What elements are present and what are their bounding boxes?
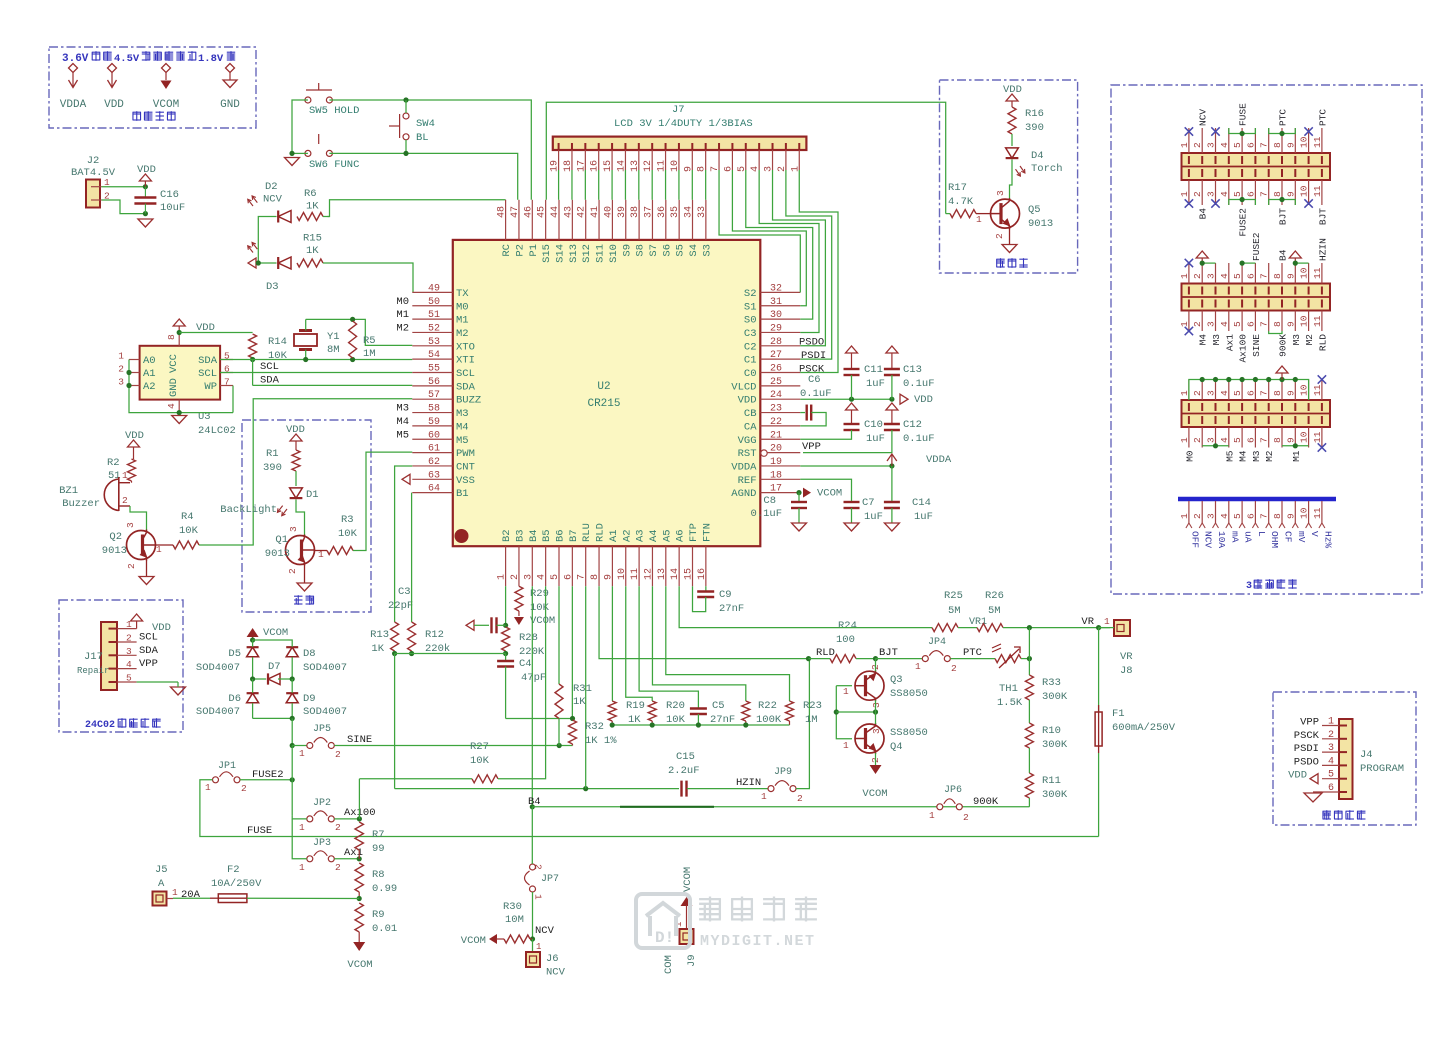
svg-text:D2: D2 xyxy=(265,181,278,193)
svg-text:8: 8 xyxy=(166,334,177,340)
svg-text:RC: RC xyxy=(501,244,513,257)
svg-text:10: 10 xyxy=(1299,136,1310,148)
svg-text:7: 7 xyxy=(1259,437,1270,443)
svg-text:BJT: BJT xyxy=(879,647,898,659)
svg-text:8: 8 xyxy=(590,574,601,580)
svg-text:M3: M3 xyxy=(396,403,409,415)
svg-text:11: 11 xyxy=(1312,315,1323,327)
svg-text:C3: C3 xyxy=(744,328,757,340)
svg-text:4: 4 xyxy=(126,659,132,670)
svg-text:8: 8 xyxy=(1272,321,1283,327)
svg-text:11: 11 xyxy=(1312,267,1323,279)
svg-text:PWM: PWM xyxy=(456,448,475,460)
svg-text:B7: B7 xyxy=(568,529,580,542)
svg-text:6: 6 xyxy=(1245,191,1256,197)
svg-text:J7: J7 xyxy=(672,104,685,116)
svg-text:3: 3 xyxy=(288,526,299,532)
svg-text:VCOM: VCOM xyxy=(817,488,842,500)
svg-text:BZ1: BZ1 xyxy=(59,485,78,497)
svg-text:NCV: NCV xyxy=(263,194,283,206)
svg-text:NCV: NCV xyxy=(1203,531,1214,548)
svg-text:15: 15 xyxy=(684,568,695,580)
svg-text:3: 3 xyxy=(1206,321,1217,327)
svg-text:37: 37 xyxy=(643,206,654,218)
svg-text:61: 61 xyxy=(428,444,440,455)
svg-text:SS8050: SS8050 xyxy=(890,688,928,700)
svg-text:100: 100 xyxy=(836,634,855,646)
svg-text:4: 4 xyxy=(1328,756,1334,767)
svg-text:1K 1%: 1K 1% xyxy=(585,735,617,747)
svg-text:24C02: 24C02 xyxy=(85,720,115,731)
svg-text:M5: M5 xyxy=(456,435,469,447)
svg-text:J9: J9 xyxy=(686,954,698,967)
svg-text:2: 2 xyxy=(1192,390,1203,396)
svg-text:VDD: VDD xyxy=(104,99,124,111)
svg-text:11: 11 xyxy=(1312,431,1323,443)
svg-text:SW6 FUNC: SW6 FUNC xyxy=(309,159,359,171)
svg-text:8: 8 xyxy=(1272,273,1283,279)
svg-text:10: 10 xyxy=(1299,431,1310,443)
svg-text:GND: GND xyxy=(168,378,180,397)
svg-text:5: 5 xyxy=(1232,273,1243,279)
svg-text:5: 5 xyxy=(1232,191,1243,197)
svg-text:SOD4007: SOD4007 xyxy=(196,662,240,674)
svg-text:A4: A4 xyxy=(648,529,660,542)
svg-text:1: 1 xyxy=(1179,142,1190,148)
svg-text:D4: D4 xyxy=(1031,150,1044,162)
svg-text:S5: S5 xyxy=(675,244,687,257)
svg-text:C13: C13 xyxy=(903,364,922,376)
svg-text:Repair: Repair xyxy=(77,666,109,676)
svg-text:CF: CF xyxy=(1283,531,1294,543)
svg-text:B2: B2 xyxy=(501,529,513,542)
svg-text:R33: R33 xyxy=(1042,677,1061,689)
svg-text:3: 3 xyxy=(871,728,882,734)
svg-text:4: 4 xyxy=(537,574,548,580)
svg-text:M4: M4 xyxy=(396,416,409,428)
svg-text:2: 2 xyxy=(994,233,1005,239)
svg-text:21: 21 xyxy=(770,430,782,441)
svg-text:4: 4 xyxy=(1219,191,1230,197)
svg-text:2: 2 xyxy=(1192,513,1203,519)
svg-text:LCD 3V 1/4DUTY 1/3BIAS: LCD 3V 1/4DUTY 1/3BIAS xyxy=(614,118,753,130)
svg-text:S13: S13 xyxy=(568,244,580,263)
svg-text:10: 10 xyxy=(1299,267,1310,279)
svg-text:SCL: SCL xyxy=(260,361,279,373)
svg-text:AGND: AGND xyxy=(731,488,756,500)
svg-text:C5: C5 xyxy=(712,700,725,712)
svg-text:9: 9 xyxy=(1285,191,1296,197)
svg-text:M4: M4 xyxy=(1238,450,1249,462)
svg-text:39: 39 xyxy=(617,206,628,218)
svg-text:3: 3 xyxy=(1328,743,1334,754)
svg-text:SINE: SINE xyxy=(347,734,372,746)
svg-text:FTP: FTP xyxy=(688,523,700,542)
svg-text:1: 1 xyxy=(497,574,508,580)
svg-text:390: 390 xyxy=(263,462,282,474)
svg-text:4: 4 xyxy=(1219,513,1230,519)
svg-text:NCV: NCV xyxy=(1198,109,1209,126)
svg-text:10K: 10K xyxy=(470,755,490,767)
svg-text:FTN: FTN xyxy=(701,523,713,542)
svg-text:SCL: SCL xyxy=(198,368,217,380)
svg-text:300K: 300K xyxy=(1042,789,1068,801)
svg-text:1uF: 1uF xyxy=(866,378,885,390)
svg-text:1: 1 xyxy=(118,351,124,362)
svg-text:1.8V: 1.8V xyxy=(198,53,224,65)
svg-text:7: 7 xyxy=(1259,513,1270,519)
svg-text:COM: COM xyxy=(663,955,675,974)
svg-text:VCOM: VCOM xyxy=(263,627,288,639)
svg-text:2: 2 xyxy=(951,663,957,674)
svg-text:S9: S9 xyxy=(621,244,633,257)
svg-text:PSCK: PSCK xyxy=(1294,730,1320,742)
svg-text:9013: 9013 xyxy=(102,545,127,557)
svg-text:J2: J2 xyxy=(87,155,100,167)
svg-text:GND: GND xyxy=(220,99,240,111)
svg-text:SDA: SDA xyxy=(139,645,159,657)
svg-text:9013: 9013 xyxy=(265,548,290,560)
svg-text:11: 11 xyxy=(1312,507,1323,519)
svg-text:6: 6 xyxy=(1245,142,1256,148)
svg-text:3: 3 xyxy=(1246,581,1252,592)
svg-text:28: 28 xyxy=(770,337,782,348)
svg-text:FUSE2: FUSE2 xyxy=(1251,232,1262,261)
svg-text:REF: REF xyxy=(738,475,757,487)
svg-text:1: 1 xyxy=(1179,321,1190,327)
svg-text:4: 4 xyxy=(1219,437,1230,443)
svg-text:FUSE2: FUSE2 xyxy=(1238,208,1249,237)
svg-text:19: 19 xyxy=(770,457,782,468)
svg-text:33: 33 xyxy=(697,206,708,218)
svg-text:6: 6 xyxy=(1245,390,1256,396)
svg-text:mA: mA xyxy=(1229,531,1240,543)
svg-text:VCOM: VCOM xyxy=(347,959,372,971)
svg-text:23: 23 xyxy=(770,404,782,415)
svg-text:10: 10 xyxy=(1299,315,1310,327)
svg-text:R12: R12 xyxy=(425,629,444,641)
svg-text:6: 6 xyxy=(563,574,574,580)
svg-text:VDDA: VDDA xyxy=(60,99,87,111)
svg-text:24LC02: 24LC02 xyxy=(198,425,236,437)
svg-text:M2: M2 xyxy=(1264,450,1275,462)
svg-text:M3: M3 xyxy=(1211,334,1222,346)
svg-text:J6: J6 xyxy=(546,953,559,965)
svg-text:VCC: VCC xyxy=(168,354,180,373)
svg-text:31: 31 xyxy=(770,297,782,308)
svg-text:CB: CB xyxy=(744,408,757,420)
svg-text:B5: B5 xyxy=(541,529,553,542)
svg-text:VDD: VDD xyxy=(738,395,757,407)
svg-text:1: 1 xyxy=(1179,437,1190,443)
svg-text:D3: D3 xyxy=(266,281,279,293)
svg-text:R27: R27 xyxy=(470,741,489,753)
svg-text:J17: J17 xyxy=(84,651,103,663)
svg-text:XTO: XTO xyxy=(456,341,475,353)
svg-text:R30: R30 xyxy=(503,901,522,913)
svg-text:8: 8 xyxy=(1272,390,1283,396)
svg-text:3: 3 xyxy=(995,190,1006,196)
svg-text:3: 3 xyxy=(523,574,534,580)
svg-text:1K: 1K xyxy=(573,696,586,708)
svg-text:R22: R22 xyxy=(758,700,777,712)
svg-text:Q1: Q1 xyxy=(275,534,288,546)
svg-text:10K: 10K xyxy=(666,714,686,726)
svg-text:99: 99 xyxy=(372,843,385,855)
svg-text:VGG: VGG xyxy=(738,435,757,447)
svg-text:2: 2 xyxy=(241,783,247,794)
svg-text:M5: M5 xyxy=(1224,450,1235,462)
svg-text:R19: R19 xyxy=(626,700,645,712)
svg-text:2: 2 xyxy=(1192,437,1203,443)
svg-text:VCOM: VCOM xyxy=(153,99,179,111)
svg-text:6: 6 xyxy=(1245,437,1256,443)
svg-text:A2: A2 xyxy=(621,529,633,542)
svg-text:8: 8 xyxy=(1272,191,1283,197)
svg-text:M3: M3 xyxy=(1251,450,1262,462)
svg-text:VDD: VDD xyxy=(1288,770,1307,782)
svg-text:C2: C2 xyxy=(744,341,757,353)
svg-text:XTI: XTI xyxy=(456,355,475,367)
svg-text:3.6V: 3.6V xyxy=(62,53,89,65)
svg-text:900K: 900K xyxy=(1278,334,1289,357)
svg-text:R15: R15 xyxy=(303,233,322,245)
svg-text:L: L xyxy=(1256,531,1267,537)
svg-text:OHM: OHM xyxy=(1269,531,1280,548)
svg-text:38: 38 xyxy=(630,206,641,218)
svg-text:JP2: JP2 xyxy=(313,798,331,809)
svg-text:JP7: JP7 xyxy=(541,874,559,885)
svg-text:PSDO: PSDO xyxy=(1294,756,1319,768)
svg-text:1K: 1K xyxy=(306,201,319,213)
svg-text:4.7K: 4.7K xyxy=(948,196,974,208)
svg-text:2: 2 xyxy=(335,749,341,760)
svg-text:CA: CA xyxy=(744,421,757,433)
svg-text:VCOM: VCOM xyxy=(461,935,486,947)
svg-text:R1: R1 xyxy=(266,448,279,460)
svg-text:10A/250V: 10A/250V xyxy=(211,878,262,890)
svg-text:1: 1 xyxy=(1328,717,1334,728)
svg-text:D9: D9 xyxy=(303,693,316,705)
svg-text:14: 14 xyxy=(670,568,681,580)
svg-text:M2: M2 xyxy=(396,322,409,334)
svg-text:10: 10 xyxy=(1299,507,1310,519)
svg-text:34: 34 xyxy=(684,206,695,218)
svg-text:P2: P2 xyxy=(514,244,526,257)
svg-text:58: 58 xyxy=(428,404,440,415)
svg-text:C9: C9 xyxy=(719,589,732,601)
svg-text:C0: C0 xyxy=(744,368,757,380)
svg-text:10uF: 10uF xyxy=(160,202,185,214)
svg-text:M4: M4 xyxy=(1198,334,1209,346)
svg-text:R14: R14 xyxy=(268,336,287,348)
svg-text:Q3: Q3 xyxy=(890,674,903,686)
svg-text:5M: 5M xyxy=(988,605,1001,617)
svg-text:1.5K: 1.5K xyxy=(997,697,1023,709)
svg-text:29: 29 xyxy=(770,323,782,334)
svg-text:JP6: JP6 xyxy=(944,785,962,796)
svg-text:50: 50 xyxy=(428,297,440,308)
svg-text:R3: R3 xyxy=(341,514,354,526)
svg-text:P1: P1 xyxy=(528,244,540,257)
svg-text:HZIN: HZIN xyxy=(1317,238,1328,261)
svg-text:BackLight: BackLight xyxy=(220,504,277,516)
svg-text:2: 2 xyxy=(510,574,521,580)
svg-text:MYDIGIT.NET: MYDIGIT.NET xyxy=(700,933,816,950)
svg-text:SOD4007: SOD4007 xyxy=(303,706,347,718)
svg-text:J5: J5 xyxy=(155,864,168,876)
svg-text:49: 49 xyxy=(428,283,440,294)
svg-text:51: 51 xyxy=(428,310,440,321)
svg-text:A6: A6 xyxy=(675,529,687,542)
svg-text:A2: A2 xyxy=(143,381,156,393)
svg-text:11: 11 xyxy=(1312,185,1323,197)
svg-text:1: 1 xyxy=(172,887,178,898)
svg-text:4: 4 xyxy=(1219,142,1230,148)
svg-text:2: 2 xyxy=(533,864,544,870)
svg-text:3: 3 xyxy=(1206,513,1217,519)
svg-text:24: 24 xyxy=(770,390,782,401)
svg-text:27nF: 27nF xyxy=(719,603,744,615)
svg-text:RLD: RLD xyxy=(816,647,835,659)
svg-text:S11: S11 xyxy=(595,244,607,263)
svg-text:4: 4 xyxy=(1219,321,1230,327)
svg-text:B4: B4 xyxy=(1198,208,1209,220)
svg-text:32: 32 xyxy=(770,283,782,294)
svg-text:12: 12 xyxy=(643,568,654,580)
svg-text:2: 2 xyxy=(118,364,124,375)
svg-text:A5: A5 xyxy=(661,529,673,542)
svg-text:S12: S12 xyxy=(581,244,593,263)
svg-text:1: 1 xyxy=(299,862,305,873)
svg-text:A: A xyxy=(158,878,165,890)
svg-text:BJT: BJT xyxy=(1317,208,1328,225)
svg-text:1: 1 xyxy=(533,894,544,900)
svg-text:J4: J4 xyxy=(1360,749,1373,761)
svg-text:PSDI: PSDI xyxy=(1294,743,1319,755)
svg-text:9: 9 xyxy=(1285,273,1296,279)
svg-text:11: 11 xyxy=(1312,136,1323,148)
svg-text:56: 56 xyxy=(428,377,440,388)
svg-text:1: 1 xyxy=(205,782,211,793)
svg-text:S15: S15 xyxy=(541,244,553,263)
svg-text:Buzzer: Buzzer xyxy=(62,498,100,510)
svg-text:SDA: SDA xyxy=(198,355,218,367)
svg-text:20A: 20A xyxy=(181,889,201,901)
svg-text:C12: C12 xyxy=(903,419,922,431)
svg-text:1: 1 xyxy=(536,942,541,952)
svg-text:55: 55 xyxy=(428,364,440,375)
svg-text:R8: R8 xyxy=(372,869,385,881)
svg-text:SCL: SCL xyxy=(456,368,475,380)
svg-text:B6: B6 xyxy=(555,529,567,542)
svg-text:D7: D7 xyxy=(268,661,281,673)
svg-text:1: 1 xyxy=(156,544,162,555)
svg-text:2: 2 xyxy=(1192,191,1203,197)
svg-text:C6: C6 xyxy=(808,374,821,386)
svg-text:2: 2 xyxy=(122,495,128,506)
svg-text:S7: S7 xyxy=(648,244,660,257)
svg-text:17: 17 xyxy=(770,484,782,495)
svg-text:JP1: JP1 xyxy=(218,761,236,772)
svg-text:1: 1 xyxy=(843,740,849,751)
svg-text:2: 2 xyxy=(1192,321,1203,327)
svg-text:RLD: RLD xyxy=(1317,334,1328,351)
svg-text:R11: R11 xyxy=(1042,775,1061,787)
svg-text:11: 11 xyxy=(1312,384,1323,396)
svg-text:D8: D8 xyxy=(303,648,316,660)
svg-text:22pF: 22pF xyxy=(388,600,413,612)
svg-text:1M: 1M xyxy=(805,714,818,726)
svg-text:60: 60 xyxy=(428,430,440,441)
svg-text:BJT: BJT xyxy=(1278,208,1289,225)
svg-text:PSDI: PSDI xyxy=(801,350,826,362)
svg-text:3: 3 xyxy=(871,702,882,708)
svg-text:R6: R6 xyxy=(304,188,317,200)
svg-text:2: 2 xyxy=(126,563,137,569)
svg-text:64: 64 xyxy=(428,484,440,495)
svg-text:1: 1 xyxy=(1179,513,1190,519)
svg-text:9: 9 xyxy=(1285,390,1296,396)
svg-text:5: 5 xyxy=(1328,770,1334,781)
svg-text:A3: A3 xyxy=(635,529,647,542)
svg-text:S6: S6 xyxy=(661,244,673,257)
svg-text:VR: VR xyxy=(1081,616,1094,628)
svg-text:A1: A1 xyxy=(608,529,620,542)
svg-text:40: 40 xyxy=(603,206,614,218)
svg-text:16: 16 xyxy=(697,568,708,580)
svg-text:5: 5 xyxy=(126,673,132,684)
svg-text:JP3: JP3 xyxy=(313,838,331,849)
svg-text:Ax1: Ax1 xyxy=(1224,334,1235,351)
svg-text:BL: BL xyxy=(416,132,429,144)
svg-text:1: 1 xyxy=(929,810,935,821)
svg-text:TH1: TH1 xyxy=(999,683,1018,695)
svg-text:3: 3 xyxy=(126,646,132,657)
svg-text:PSCK: PSCK xyxy=(799,364,825,376)
svg-text:5: 5 xyxy=(550,574,561,580)
svg-text:44: 44 xyxy=(550,206,561,218)
svg-text:9: 9 xyxy=(1285,513,1296,519)
svg-text:2: 2 xyxy=(963,812,969,823)
svg-text:VDDA: VDDA xyxy=(926,454,952,466)
svg-text:6: 6 xyxy=(1328,783,1334,794)
svg-text:1: 1 xyxy=(1104,616,1110,627)
svg-text:PSDO: PSDO xyxy=(799,337,824,349)
svg-text:5: 5 xyxy=(1232,321,1243,327)
svg-text:M3: M3 xyxy=(1291,334,1302,346)
svg-text:S3: S3 xyxy=(701,244,713,257)
svg-text:HZIN: HZIN xyxy=(736,777,761,789)
svg-text:SDA: SDA xyxy=(456,381,476,393)
svg-text:RLU: RLU xyxy=(581,523,593,542)
svg-text:VCOM: VCOM xyxy=(682,867,694,892)
svg-text:Ax100: Ax100 xyxy=(1238,334,1249,363)
svg-text:7: 7 xyxy=(1259,321,1270,327)
svg-text:A1: A1 xyxy=(143,368,156,380)
svg-text:1uF: 1uF xyxy=(866,433,885,445)
svg-text:S4: S4 xyxy=(688,244,700,257)
svg-text:8: 8 xyxy=(1272,142,1283,148)
svg-text:M2: M2 xyxy=(456,328,469,340)
svg-text:SW4: SW4 xyxy=(416,118,435,130)
svg-text:D1: D1 xyxy=(306,489,319,501)
svg-text:SOD4007: SOD4007 xyxy=(303,662,347,674)
svg-text:47: 47 xyxy=(510,206,521,218)
svg-text:3: 3 xyxy=(125,522,136,528)
svg-text:VDDA: VDDA xyxy=(731,461,757,473)
svg-text:A0: A0 xyxy=(143,355,156,367)
